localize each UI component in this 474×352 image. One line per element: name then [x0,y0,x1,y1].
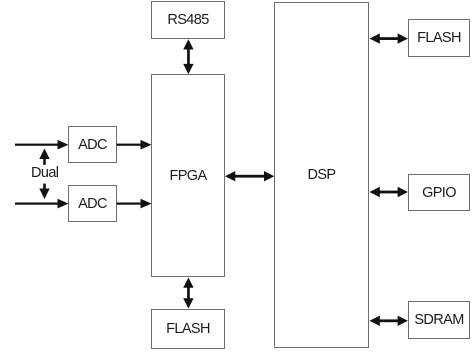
block DSP [274,2,369,348]
block ADC A2 [68,185,117,222]
block RS485 [151,1,225,39]
wire: ADC A2 to FPGA [117,199,152,209]
wire: DSP to FLASH top (bidirectional) [370,33,408,43]
wire: analog input 2 into ADC A2 [15,199,69,209]
wire: FPGA to DSP (bidirectional) [225,171,274,181]
wire: ADC A1 to FPGA [117,140,152,150]
wire: FPGA to FLASH bottom (bidirectional) [183,278,193,309]
arrow: Dual down pointer [39,184,49,199]
block ADC A1 [68,126,117,163]
block FLASH (bottom, FPGA config) [151,309,225,349]
wire: analog input 1 into ADC A1 [15,140,69,150]
block FPGA [151,74,225,277]
block GPIO [408,174,470,211]
wire: RS485 to FPGA (bidirectional) [183,39,193,74]
arrow: Dual up pointer [39,149,49,165]
block SDRAM [408,301,470,339]
wire: DSP to SDRAM (bidirectional) [370,316,408,326]
block FLASH (top right, DSP) [408,19,470,57]
label Dual [31,165,61,181]
wire: DSP to GPIO (bidirectional) [370,187,408,197]
